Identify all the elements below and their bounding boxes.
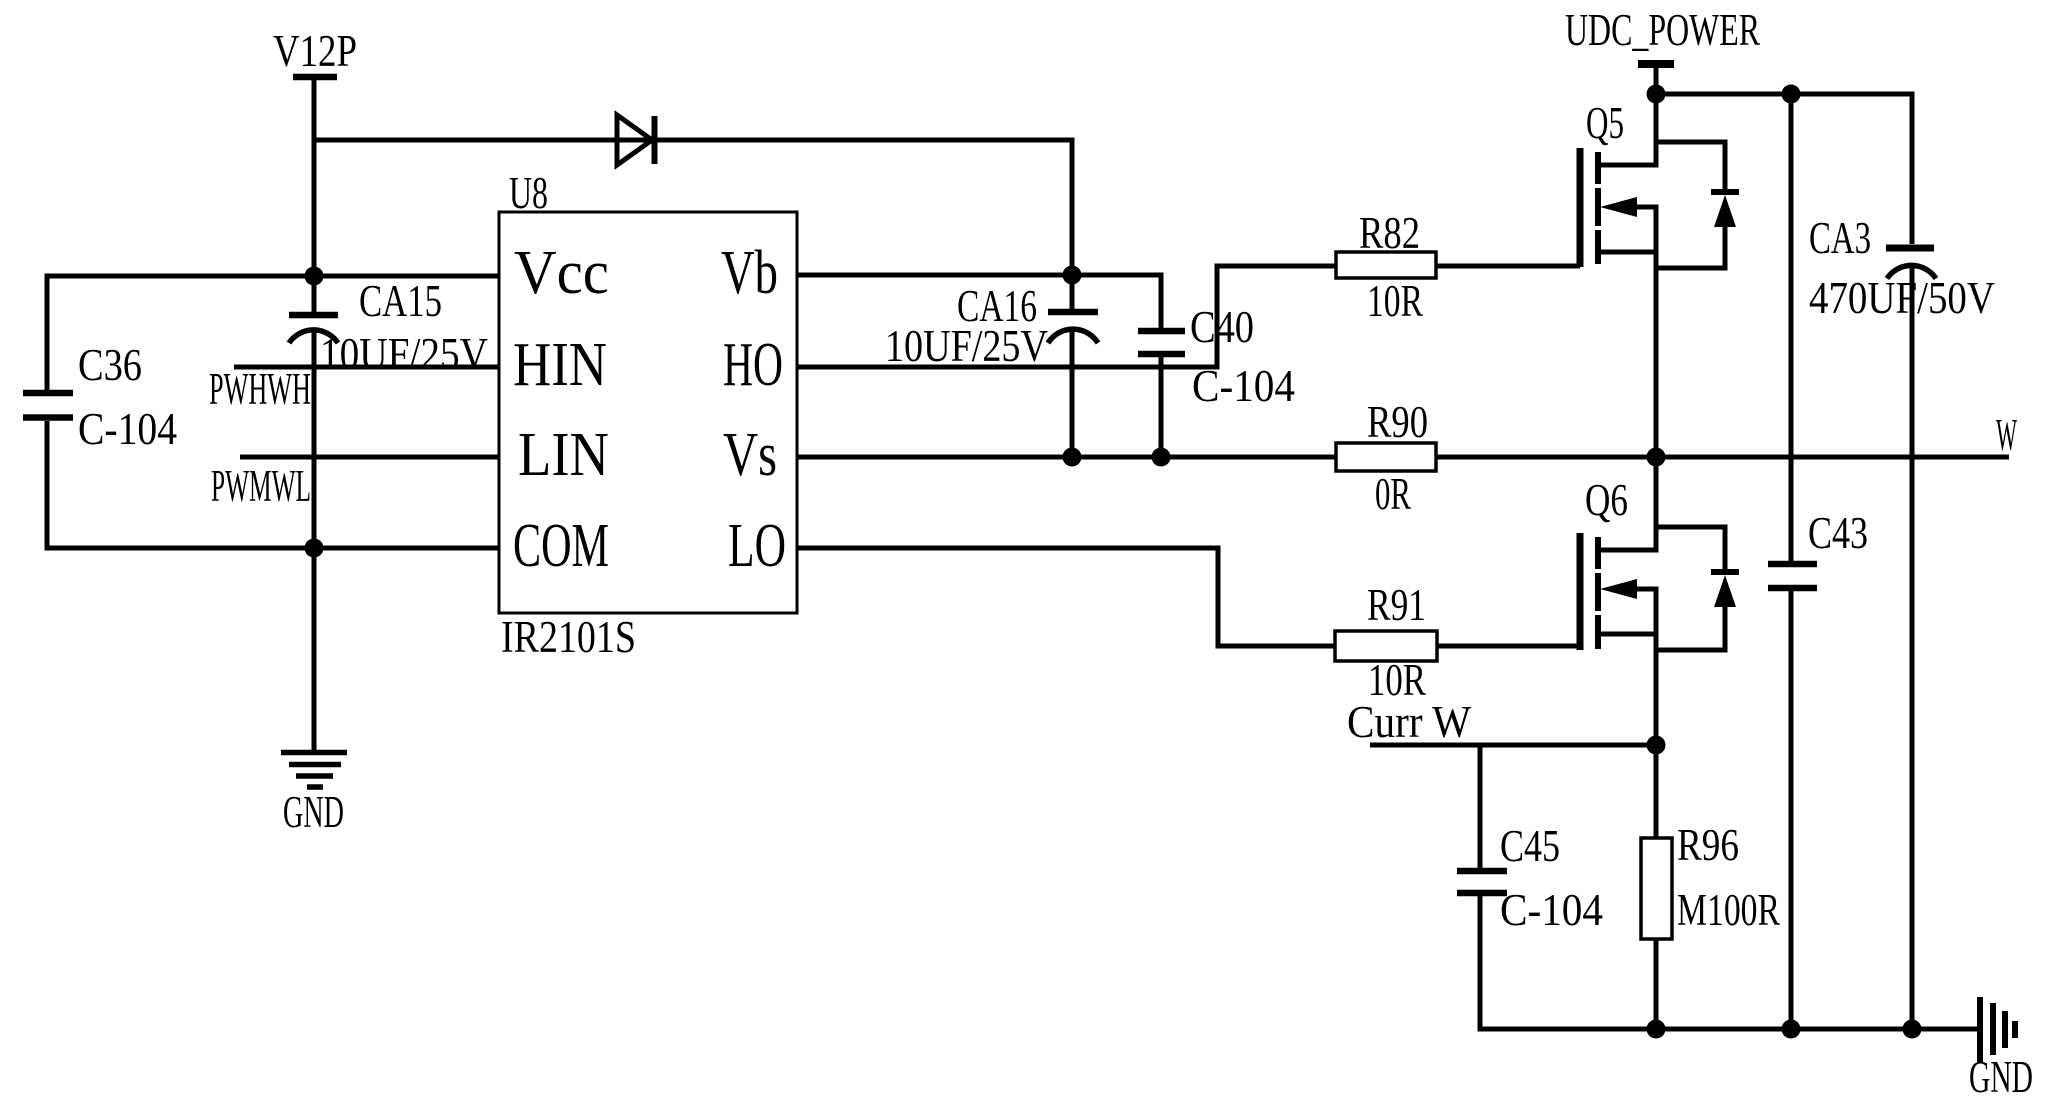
svg-text:C43: C43: [1808, 508, 1868, 558]
svg-text:Q5: Q5: [1586, 98, 1624, 148]
svg-text:10UF/25V: 10UF/25V: [320, 329, 488, 379]
svg-text:R91: R91: [1367, 580, 1426, 630]
svg-text:C40: C40: [1190, 302, 1254, 352]
svg-text:Vb: Vb: [721, 239, 778, 307]
svg-text:COM: COM: [513, 512, 609, 580]
svg-text:10UF/25V: 10UF/25V: [885, 321, 1048, 371]
svg-text:R96: R96: [1677, 820, 1739, 870]
svg-text:U8: U8: [509, 168, 548, 218]
svg-text:PWHWH: PWHWH: [209, 364, 311, 414]
svg-text:IR2101S: IR2101S: [501, 612, 636, 662]
svg-text:UDC_POWER: UDC_POWER: [1565, 5, 1760, 55]
svg-text:R90: R90: [1367, 397, 1428, 447]
svg-text:0R: 0R: [1375, 469, 1411, 519]
svg-text:C45: C45: [1500, 821, 1560, 871]
svg-text:CA3: CA3: [1809, 213, 1871, 263]
svg-text:W: W: [1996, 410, 2017, 460]
svg-text:C-104: C-104: [1500, 885, 1603, 935]
svg-text:LO: LO: [728, 512, 786, 580]
svg-text:V12P: V12P: [273, 26, 357, 76]
svg-text:GND: GND: [283, 787, 344, 837]
svg-text:Vs: Vs: [723, 421, 777, 489]
svg-text:GND: GND: [1969, 1052, 2033, 1102]
svg-text:PWMWL: PWMWL: [211, 461, 311, 511]
svg-text:CA15: CA15: [359, 276, 442, 326]
svg-text:C36: C36: [78, 340, 142, 390]
svg-text:C-104: C-104: [1192, 361, 1295, 411]
svg-text:C-104: C-104: [78, 404, 177, 454]
svg-text:Q6: Q6: [1585, 475, 1628, 525]
svg-text:470UF/50V: 470UF/50V: [1809, 273, 1995, 323]
svg-text:Curr W: Curr W: [1347, 697, 1471, 747]
svg-text:M100R: M100R: [1677, 885, 1780, 935]
svg-text:R82: R82: [1359, 208, 1420, 258]
svg-text:HIN: HIN: [513, 331, 607, 399]
svg-text:Vcc: Vcc: [514, 239, 609, 307]
svg-text:HO: HO: [723, 331, 783, 399]
svg-text:10R: 10R: [1367, 276, 1423, 326]
svg-text:LIN: LIN: [518, 421, 609, 489]
